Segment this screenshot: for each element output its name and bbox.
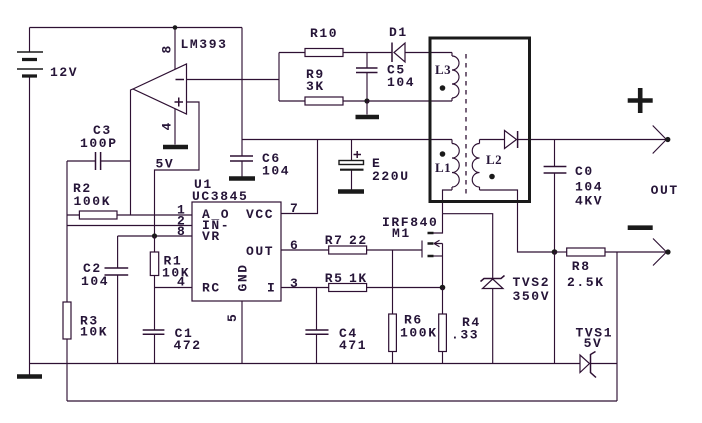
- svg-text:L3: L3: [435, 62, 451, 77]
- wire UC3845 pin4 RC line: [155, 287, 193, 289]
- wire C6 bottom lead: [241, 162, 243, 177]
- svg-text:8: 8: [160, 44, 175, 53]
- wire LM393 V+ supply lead: [174, 28, 176, 70]
- polarity dot L2: [489, 174, 495, 180]
- svg-text:GND: GND: [236, 263, 251, 291]
- resistor R8 2.5K: [567, 248, 605, 256]
- svg-text:22: 22: [349, 233, 368, 248]
- svg-text:VR: VR: [202, 229, 221, 244]
- wire main ground rail: [30, 363, 581, 365]
- wire drain into MOSFET: [434, 214, 443, 233]
- svg-text:4: 4: [177, 275, 186, 290]
- svg-text:L1: L1: [435, 160, 451, 175]
- capacitor C2 104: [105, 268, 129, 275]
- wire pin7 VCC jog: [281, 140, 318, 214]
- wire R8 to minus arrow: [605, 251, 667, 253]
- svg-text:RC: RC: [202, 281, 221, 296]
- wire C3 right lead: [101, 160, 131, 162]
- svg-text:104: 104: [262, 164, 290, 179]
- wire left feedback column: [66, 161, 68, 302]
- wire VCC vertical from top rail: [241, 28, 243, 140]
- svg-text:4KV: 4KV: [575, 194, 603, 209]
- node dot plus output: [665, 137, 670, 142]
- svg-text:R10: R10: [310, 26, 338, 41]
- wire op-amp output down to pin1 net: [131, 89, 134, 215]
- wire R6 bottom lead: [392, 352, 394, 364]
- svg-text:100K: 100K: [400, 326, 438, 341]
- wire C5 top lead: [366, 53, 368, 69]
- wire UC3845 pin8 line: [118, 235, 192, 237]
- svg-text:R8: R8: [572, 259, 591, 274]
- capacitor C5 104: [356, 68, 378, 73]
- svg-text:C0: C0: [575, 164, 594, 179]
- wire C4 bottom lead: [316, 335, 318, 364]
- svg-text:3K: 3K: [306, 79, 325, 94]
- resistor R1 10K: [150, 252, 158, 276]
- wire C5 bottom lead: [366, 73, 368, 102]
- svg-text:471: 471: [339, 338, 367, 353]
- wire L2 bottom to minus node: [480, 190, 555, 252]
- svg-text:12V: 12V: [50, 65, 78, 80]
- winding L3: [451, 53, 453, 102]
- svg-text:R7: R7: [325, 233, 344, 248]
- wire C6 top lead: [241, 140, 243, 156]
- polarity dot L1: [440, 151, 446, 157]
- wire VCC line to transformer L1: [242, 139, 452, 141]
- plus output terminal symbol: [628, 88, 653, 113]
- wire right return riser: [616, 252, 618, 401]
- junction top rail / LM393 supply: [173, 25, 178, 30]
- junction minus node C0/R8: [552, 249, 558, 255]
- svg-text:6: 6: [290, 238, 299, 253]
- junction source node: [440, 285, 446, 291]
- svg-text:8: 8: [177, 224, 186, 239]
- capacitor C0 104 4KV: [544, 167, 567, 174]
- svg-text:1K: 1K: [349, 271, 368, 286]
- svg-text:OUT: OUT: [246, 244, 274, 259]
- output rectifier diode: [505, 131, 518, 149]
- svg-text:100P: 100P: [80, 136, 118, 151]
- winding L1: [451, 140, 453, 191]
- svg-text:TVS2: TVS2: [513, 275, 551, 290]
- ground bar below C5 node: [356, 115, 380, 120]
- MOSFET M1 IRF840: [422, 233, 443, 288]
- svg-text:2.5K: 2.5K: [567, 275, 605, 290]
- junction C5/R9/L3 node: [364, 98, 369, 103]
- op-amp U2 LM393 (left-pointing comparator): [133, 64, 187, 114]
- svg-text:I: I: [267, 281, 276, 296]
- svg-text:104: 104: [81, 274, 109, 289]
- capacitor E 220U electrolytic: [338, 151, 364, 192]
- capacitor C4 471: [305, 330, 328, 334]
- capacitor C3 100P: [96, 152, 101, 170]
- svg-text:R5: R5: [325, 271, 344, 286]
- wire R1 top lead: [154, 236, 156, 252]
- svg-text:104: 104: [387, 75, 415, 90]
- wire R3 bottom lead: [66, 339, 68, 364]
- minus output terminal symbol: [628, 225, 653, 230]
- resistor R3 10K: [63, 302, 71, 339]
- node dot minus output: [665, 249, 670, 254]
- wire C3 left lead: [67, 160, 96, 162]
- svg-text:VCC: VCC: [246, 207, 274, 222]
- svg-text:OUT: OUT: [651, 183, 679, 198]
- wire drain branch to TVS2: [443, 214, 493, 278]
- wire C1 top lead: [154, 288, 156, 330]
- resistor R6 100K: [389, 314, 397, 352]
- resistor R2 100K: [79, 211, 117, 219]
- capacitor C6 104: [230, 156, 253, 161]
- wire R6 top lead from gate line: [392, 250, 394, 314]
- wire C0 bottom lead: [554, 173, 556, 252]
- IC U1 UC3845 box: [192, 202, 281, 301]
- wire L1 bottom to drain node: [443, 190, 453, 214]
- plus output arrow: [653, 126, 667, 154]
- resistor R10: [305, 49, 343, 57]
- wire R1 bottom lead: [154, 276, 156, 288]
- wire ground rail right of TVS1: [591, 363, 618, 365]
- wire top supply rail: [30, 27, 243, 29]
- ground bar below C6: [229, 176, 255, 181]
- svg-text:M1: M1: [392, 226, 411, 241]
- diode D1: [392, 43, 405, 63]
- wire C0 top lead: [554, 140, 556, 167]
- battery B1 12V: [17, 52, 43, 76]
- wire gate line from R7: [281, 249, 422, 251]
- wire battery top lead: [29, 28, 31, 53]
- wire C2 bottom lead: [117, 275, 119, 364]
- wire R10/R9 left vertical: [278, 53, 280, 102]
- svg-text:100K: 100K: [74, 194, 112, 209]
- wire plus input loop to 5V/VR node: [155, 102, 200, 236]
- wire C1 bottom lead: [154, 335, 156, 364]
- TVS2 350V transient suppressor: [481, 276, 505, 364]
- wire UC3845 pin2 line: [67, 225, 192, 227]
- wire minus node to R8: [555, 251, 567, 253]
- wire L2 top to output diode: [480, 139, 505, 141]
- capacitor C1 472: [143, 330, 165, 334]
- resistor R5 1K: [329, 284, 367, 292]
- transformer shield box: [430, 38, 530, 202]
- wire plus output line: [518, 139, 667, 141]
- svg-text:220U: 220U: [372, 169, 410, 184]
- svg-text:472: 472: [174, 338, 202, 353]
- winding L2: [479, 140, 481, 191]
- wire node to ground stub: [366, 101, 368, 115]
- wire pin3 current sense line: [281, 287, 443, 289]
- wire bottom return rail: [67, 400, 617, 402]
- svg-text:LM393: LM393: [181, 37, 228, 52]
- resistor R4 .33: [439, 314, 447, 352]
- wire bottom loop left riser: [66, 364, 68, 402]
- svg-text:5V: 5V: [156, 157, 175, 172]
- svg-text:5: 5: [225, 313, 240, 322]
- svg-text:.33: .33: [451, 328, 479, 343]
- svg-text:L2: L2: [486, 152, 502, 167]
- svg-text:4: 4: [160, 121, 175, 130]
- svg-text:350V: 350V: [513, 289, 551, 304]
- wire L3 bottom return: [367, 100, 452, 102]
- resistor R7 22: [329, 246, 367, 254]
- junction VR node (R1 top / 5V wire / pin8 line): [152, 233, 157, 238]
- wire UC3845 pin1 line: [67, 214, 192, 216]
- svg-text:3: 3: [290, 276, 299, 291]
- wire minus node down to ground rail: [554, 252, 556, 364]
- svg-text:10K: 10K: [80, 325, 108, 340]
- wire C4 top lead: [316, 288, 318, 330]
- svg-text:104: 104: [575, 180, 603, 195]
- wire R10 leads: [279, 52, 392, 54]
- svg-text:D1: D1: [389, 25, 408, 40]
- wire battery bottom lead down to ground rail: [29, 76, 31, 364]
- wire LM393 pin4 lead: [174, 109, 176, 145]
- resistor R9 3K: [305, 97, 343, 105]
- wire C2 top lead: [117, 236, 119, 268]
- ground bar below LM393 pin4 (5V bar): [163, 145, 188, 150]
- polarity dot L3: [440, 85, 446, 91]
- ground symbol bottom left: [29, 364, 31, 375]
- minus output arrow: [653, 239, 667, 266]
- svg-text:UC3845: UC3845: [192, 189, 248, 204]
- wire R9 leads: [279, 100, 367, 102]
- wire minus input line to R9/R10 node: [187, 79, 280, 81]
- TVS1 5V transient suppressor: [580, 352, 596, 378]
- wire D1 anode to transformer L3: [405, 52, 452, 54]
- wire UC3845 pin5 GND lead: [241, 301, 243, 364]
- wire R4 top lead: [442, 288, 444, 315]
- transformer core dashed line: [465, 54, 467, 196]
- wire R4 bottom lead: [442, 352, 444, 364]
- svg-text:5V: 5V: [584, 336, 603, 351]
- wire E cap top lead: [351, 140, 353, 161]
